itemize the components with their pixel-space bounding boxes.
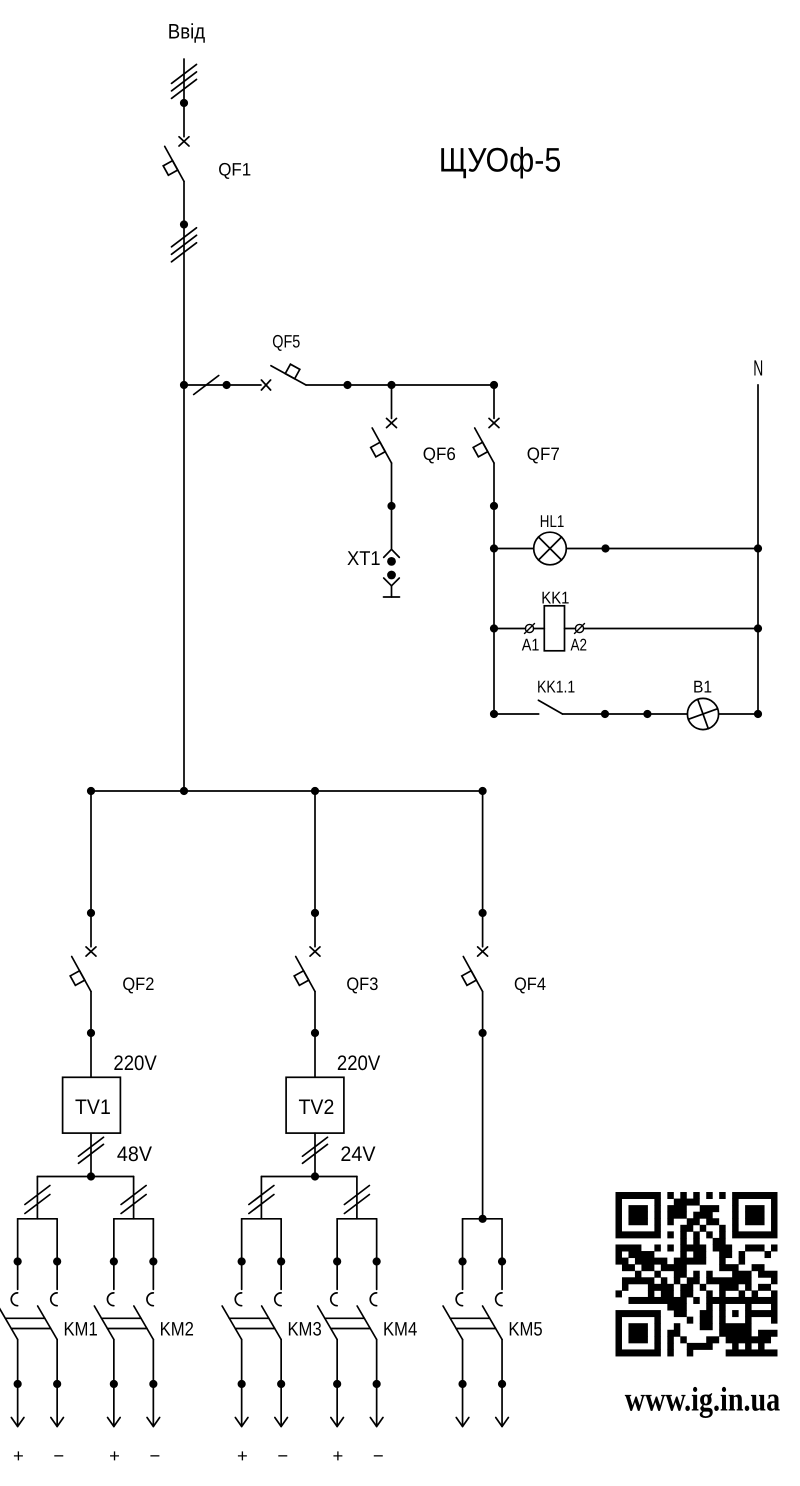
svg-text:ЩУОф-5: ЩУОф-5 xyxy=(439,142,562,180)
svg-text:+: + xyxy=(332,1445,343,1466)
svg-text:+: + xyxy=(109,1445,120,1466)
svg-text:KK1.1: KK1.1 xyxy=(537,678,575,697)
svg-text:QF4: QF4 xyxy=(514,974,546,994)
svg-text:KK1: KK1 xyxy=(541,588,569,607)
svg-text:www.ig.in.ua: www.ig.in.ua xyxy=(625,1382,780,1419)
svg-text:HL1: HL1 xyxy=(540,512,565,531)
svg-text:48V: 48V xyxy=(117,1143,152,1166)
svg-text:+: + xyxy=(237,1445,248,1466)
svg-text:QF7: QF7 xyxy=(527,444,560,464)
svg-text:QF3: QF3 xyxy=(346,974,378,994)
svg-text:KM1: KM1 xyxy=(63,1319,97,1341)
svg-text:−: − xyxy=(53,1445,64,1466)
svg-text:A2: A2 xyxy=(571,636,588,655)
svg-text:B1: B1 xyxy=(693,678,712,697)
svg-text:QF6: QF6 xyxy=(423,444,456,464)
svg-text:A1: A1 xyxy=(522,636,540,655)
svg-text:−: − xyxy=(150,1445,161,1466)
svg-text:KM3: KM3 xyxy=(287,1319,321,1341)
svg-text:TV1: TV1 xyxy=(75,1096,111,1119)
svg-text:−: − xyxy=(277,1445,288,1466)
svg-text:QF1: QF1 xyxy=(218,160,251,180)
svg-text:−: − xyxy=(373,1445,384,1466)
svg-text:KM5: KM5 xyxy=(508,1319,542,1341)
svg-text:Ввід: Ввід xyxy=(168,20,205,43)
svg-text:KM2: KM2 xyxy=(160,1319,194,1341)
svg-text:QF2: QF2 xyxy=(122,974,154,994)
svg-text:XT1: XT1 xyxy=(347,548,381,570)
svg-text:TV2: TV2 xyxy=(299,1096,335,1119)
svg-text:N: N xyxy=(753,356,763,381)
svg-text:+: + xyxy=(13,1445,24,1466)
svg-text:220V: 220V xyxy=(113,1052,156,1075)
svg-text:KM4: KM4 xyxy=(383,1319,417,1341)
svg-text:24V: 24V xyxy=(340,1143,375,1166)
svg-text:QF5: QF5 xyxy=(272,332,300,352)
svg-text:220V: 220V xyxy=(337,1052,380,1075)
